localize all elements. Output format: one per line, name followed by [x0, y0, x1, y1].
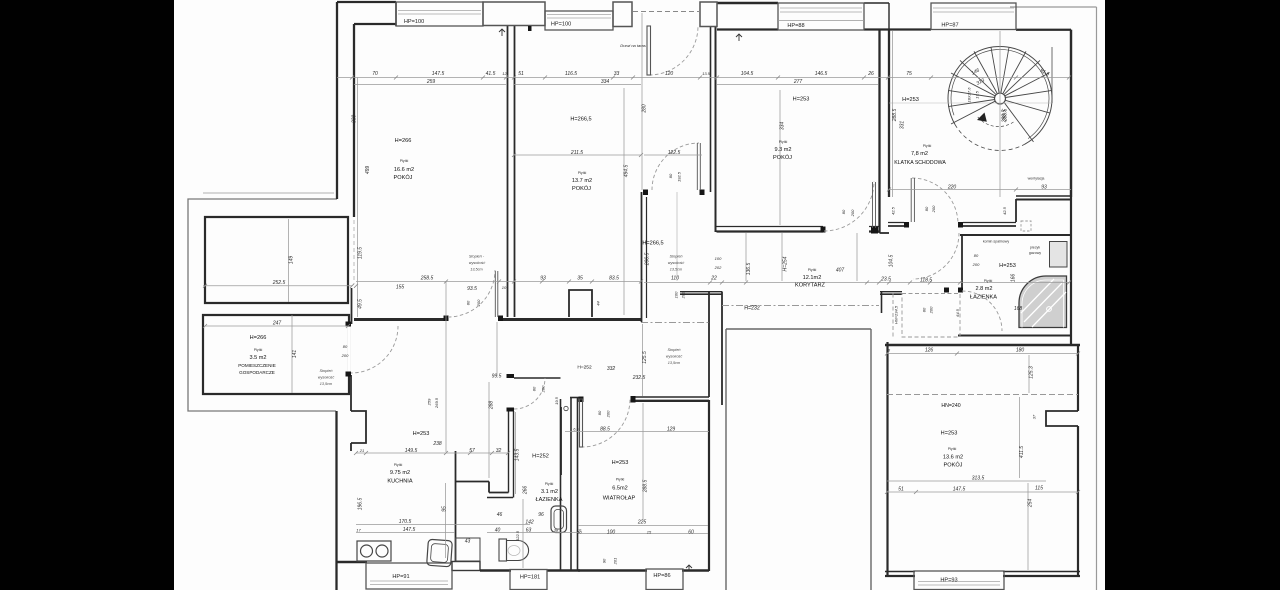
- svg-text:Płytki: Płytki: [779, 140, 788, 144]
- svg-text:Płytki: Płytki: [984, 279, 993, 283]
- svg-text:Płytki: Płytki: [394, 463, 403, 467]
- svg-text:225: 225: [637, 520, 647, 526]
- svg-text:63: 63: [526, 528, 532, 534]
- svg-text:13,5cm: 13,5cm: [320, 382, 332, 386]
- svg-text:6.5m2: 6.5m2: [612, 486, 628, 492]
- svg-text:60: 60: [688, 530, 694, 536]
- svg-text:Stopień: Stopień: [670, 255, 683, 259]
- svg-text:269.5: 269.5: [434, 397, 439, 409]
- svg-text:10: 10: [577, 530, 582, 535]
- svg-text:196.5: 196.5: [358, 498, 364, 511]
- svg-text:80: 80: [841, 209, 846, 214]
- svg-text:HP=87: HP=87: [941, 23, 958, 29]
- svg-text:Płytki: Płytki: [923, 144, 932, 148]
- svg-text:HP=100: HP=100: [551, 22, 571, 28]
- svg-text:HN=234,5: HN=234,5: [894, 305, 899, 324]
- svg-text:147.5: 147.5: [403, 527, 416, 533]
- svg-text:93.5: 93.5: [467, 286, 477, 292]
- svg-text:247: 247: [272, 321, 282, 327]
- svg-text:407: 407: [836, 268, 845, 274]
- svg-text:120: 120: [665, 71, 674, 77]
- svg-text:104.5: 104.5: [741, 71, 754, 77]
- svg-text:313.5: 313.5: [972, 476, 985, 482]
- svg-text:115: 115: [1035, 486, 1043, 492]
- svg-text:26: 26: [867, 71, 874, 77]
- svg-text:KLATKA SCHODOWA: KLATKA SCHODOWA: [894, 160, 946, 166]
- svg-text:HP=91: HP=91: [392, 574, 409, 580]
- svg-text:93: 93: [540, 276, 546, 282]
- svg-text:Płytki: Płytki: [808, 268, 817, 272]
- svg-text:18X17.6: 18X17.6: [967, 87, 972, 103]
- svg-text:wysokość: wysokość: [318, 376, 335, 380]
- svg-text:277: 277: [793, 79, 803, 85]
- svg-text:17: 17: [356, 528, 361, 533]
- svg-text:202: 202: [714, 265, 722, 270]
- svg-text:KORYTARZ: KORYTARZ: [795, 283, 826, 289]
- svg-text:141: 141: [292, 350, 298, 359]
- svg-text:136.5: 136.5: [746, 263, 752, 276]
- svg-text:96: 96: [538, 512, 544, 518]
- svg-text:wysokość: wysokość: [668, 261, 685, 265]
- svg-text:90: 90: [602, 558, 607, 563]
- svg-text:149.5: 149.5: [405, 448, 418, 454]
- svg-text:38: 38: [554, 528, 559, 533]
- svg-text:35: 35: [577, 276, 583, 282]
- svg-text:Drzwi na taras: Drzwi na taras: [620, 43, 646, 48]
- svg-text:wysokość: wysokość: [469, 261, 486, 265]
- svg-text:21: 21: [359, 448, 364, 453]
- svg-text:6.5: 6.5: [573, 427, 579, 432]
- svg-text:110: 110: [671, 276, 679, 282]
- svg-text:254: 254: [1028, 499, 1034, 509]
- svg-text:232.5: 232.5: [632, 375, 646, 381]
- svg-text:43: 43: [465, 539, 471, 545]
- svg-text:POKÓJ: POKÓJ: [773, 154, 792, 161]
- svg-text:95: 95: [442, 506, 448, 512]
- svg-text:Stopień: Stopień: [320, 369, 333, 373]
- svg-text:80: 80: [532, 386, 537, 391]
- svg-text:200: 200: [606, 410, 611, 418]
- svg-text:H=253: H=253: [941, 431, 958, 437]
- svg-text:HP=86: HP=86: [653, 573, 670, 579]
- svg-text:126: 126: [925, 348, 934, 354]
- svg-text:288.5: 288.5: [892, 109, 898, 123]
- svg-text:155: 155: [396, 285, 405, 291]
- svg-text:H=253: H=253: [413, 431, 430, 437]
- svg-text:13,5cm: 13,5cm: [668, 361, 680, 365]
- svg-text:83.5: 83.5: [609, 276, 619, 282]
- svg-text:9.75 m2: 9.75 m2: [390, 470, 410, 476]
- svg-text:200: 200: [931, 205, 936, 213]
- svg-text:122.5: 122.5: [515, 530, 520, 541]
- svg-text:9.3 m2: 9.3 m2: [774, 147, 791, 153]
- svg-text:334: 334: [601, 79, 610, 85]
- svg-text:49.5: 49.5: [358, 299, 364, 309]
- svg-text:411.5: 411.5: [1019, 446, 1025, 458]
- svg-text:17.5: 17.5: [975, 90, 980, 99]
- svg-text:Płytki: Płytki: [400, 159, 409, 163]
- svg-text:70: 70: [372, 71, 378, 77]
- svg-text:211.5: 211.5: [570, 150, 583, 156]
- svg-text:GOSPODARCZE: GOSPODARCZE: [239, 370, 275, 375]
- svg-text:13.7 m2: 13.7 m2: [572, 178, 592, 184]
- svg-text:HP=181: HP=181: [520, 575, 540, 581]
- svg-text:WIATROŁAP: WIATROŁAP: [603, 496, 636, 502]
- svg-text:200: 200: [972, 262, 980, 267]
- svg-text:88.5: 88.5: [600, 427, 610, 433]
- svg-text:146.5: 146.5: [815, 71, 828, 77]
- svg-text:494.5: 494.5: [624, 165, 630, 178]
- svg-text:118.5: 118.5: [920, 278, 932, 284]
- svg-text:Płytki: Płytki: [254, 348, 263, 352]
- svg-text:104.5: 104.5: [889, 255, 895, 268]
- svg-text:330: 330: [352, 115, 358, 124]
- svg-text:ŁAZIENKA: ŁAZIENKA: [535, 497, 562, 503]
- svg-text:80: 80: [974, 253, 979, 258]
- svg-text:129: 129: [667, 427, 676, 433]
- svg-text:13.6 m2: 13.6 m2: [943, 455, 963, 461]
- svg-text:116.5: 116.5: [565, 71, 577, 77]
- svg-text:206.5: 206.5: [645, 253, 651, 267]
- svg-text:komin spalinowy: komin spalinowy: [983, 240, 1010, 244]
- svg-text:H=254: H=254: [783, 256, 789, 271]
- svg-text:12.1m2: 12.1m2: [803, 275, 822, 281]
- svg-text:143.5: 143.5: [515, 449, 521, 462]
- svg-text:51: 51: [518, 71, 524, 77]
- svg-text:147.5: 147.5: [953, 487, 966, 493]
- svg-text:200: 200: [541, 385, 546, 393]
- svg-text:201: 201: [613, 558, 618, 566]
- svg-text:125.5: 125.5: [642, 351, 648, 364]
- svg-text:33: 33: [614, 71, 620, 77]
- svg-text:200: 200: [476, 299, 481, 307]
- svg-text:170.5: 170.5: [399, 519, 412, 525]
- svg-text:100: 100: [674, 291, 679, 298]
- svg-text:13,5cm: 13,5cm: [470, 268, 482, 272]
- svg-text:wentylacja: wentylacja: [1028, 177, 1045, 181]
- svg-text:H=253: H=253: [902, 97, 919, 103]
- svg-text:41.5: 41.5: [486, 71, 496, 77]
- svg-text:KUCHNIA: KUCHNIA: [387, 479, 412, 485]
- svg-text:332: 332: [607, 366, 616, 372]
- svg-text:75: 75: [906, 71, 912, 77]
- svg-text:80: 80: [597, 410, 602, 415]
- svg-text:119.5: 119.5: [358, 247, 364, 259]
- svg-text:200: 200: [850, 209, 855, 217]
- svg-text:334: 334: [780, 122, 786, 131]
- svg-text:Płytki: Płytki: [948, 447, 957, 451]
- svg-text:200: 200: [341, 353, 349, 358]
- svg-text:2.8 m2: 2.8 m2: [975, 286, 992, 292]
- svg-text:80: 80: [668, 173, 673, 178]
- svg-text:ŁAZIENKA: ŁAZIENKA: [970, 295, 997, 301]
- svg-text:HP=100: HP=100: [404, 19, 424, 25]
- svg-text:80: 80: [922, 307, 927, 312]
- svg-text:H=266: H=266: [395, 138, 412, 144]
- svg-text:H=266,5: H=266,5: [642, 241, 663, 247]
- svg-text:46: 46: [497, 512, 503, 518]
- svg-text:44: 44: [596, 301, 601, 306]
- svg-text:37: 37: [1032, 414, 1037, 419]
- svg-text:H=253: H=253: [612, 460, 629, 466]
- svg-text:13.5: 13.5: [702, 71, 711, 76]
- svg-text:166: 166: [1011, 274, 1017, 283]
- svg-text:H=253: H=253: [793, 97, 810, 103]
- svg-text:93: 93: [1041, 185, 1047, 191]
- svg-text:149: 149: [289, 256, 295, 265]
- svg-text:POKÓJ: POKÓJ: [572, 185, 591, 192]
- svg-text:HN=240: HN=240: [941, 403, 960, 409]
- svg-text:Płytki: Płytki: [616, 478, 625, 482]
- svg-text:15: 15: [647, 530, 652, 535]
- svg-text:100: 100: [715, 256, 722, 261]
- svg-text:13,5cm: 13,5cm: [670, 268, 682, 272]
- svg-text:Stopień: Stopień: [668, 348, 681, 352]
- svg-text:99.5: 99.5: [492, 374, 502, 380]
- svg-text:252.5: 252.5: [272, 280, 286, 286]
- svg-text:202: 202: [681, 291, 686, 299]
- svg-text:125.3: 125.3: [1029, 366, 1035, 379]
- svg-text:180: 180: [1016, 348, 1025, 354]
- svg-text:258.5: 258.5: [420, 276, 434, 282]
- svg-text:Płytki: Płytki: [578, 171, 587, 175]
- svg-text:40: 40: [495, 528, 501, 534]
- svg-text:10: 10: [502, 285, 507, 290]
- svg-text:gazowy: gazowy: [1029, 251, 1041, 255]
- svg-text:H=232: H=232: [744, 306, 760, 312]
- svg-text:42.5: 42.5: [1002, 206, 1007, 215]
- svg-text:331: 331: [900, 121, 906, 130]
- svg-text:80: 80: [466, 300, 471, 305]
- svg-text:HP=93: HP=93: [940, 578, 957, 584]
- svg-text:H=266: H=266: [250, 335, 267, 341]
- svg-text:16.6 m2: 16.6 m2: [394, 167, 414, 173]
- svg-text:80: 80: [924, 206, 929, 211]
- svg-text:499: 499: [365, 166, 371, 175]
- svg-text:23.5: 23.5: [880, 277, 891, 283]
- svg-text:piecyk: piecyk: [1030, 246, 1040, 250]
- svg-text:22: 22: [710, 276, 717, 282]
- svg-text:200: 200: [929, 306, 934, 314]
- svg-text:238: 238: [432, 441, 442, 447]
- svg-text:3.1 m2: 3.1 m2: [541, 489, 558, 495]
- svg-text:12: 12: [502, 71, 507, 76]
- svg-text:H=252: H=252: [577, 365, 592, 371]
- svg-text:259: 259: [427, 398, 432, 406]
- svg-text:57: 57: [469, 448, 475, 454]
- svg-text:142: 142: [525, 520, 534, 526]
- svg-text:32: 32: [496, 448, 502, 454]
- svg-text:259: 259: [426, 79, 436, 85]
- svg-text:288.5: 288.5: [643, 480, 649, 494]
- svg-text:122.5: 122.5: [668, 150, 681, 156]
- svg-text:280: 280: [642, 104, 648, 114]
- svg-text:Stopień -: Stopień -: [469, 255, 485, 259]
- svg-text:80: 80: [343, 344, 348, 349]
- svg-text:100: 100: [607, 530, 616, 536]
- svg-text:147.5: 147.5: [432, 71, 445, 77]
- svg-text:H=266,5: H=266,5: [570, 117, 591, 123]
- svg-text:266: 266: [523, 486, 529, 496]
- svg-text:220: 220: [947, 185, 957, 191]
- svg-text:3.5 m2: 3.5 m2: [249, 355, 266, 361]
- svg-text:192.5: 192.5: [677, 171, 682, 182]
- svg-text:288: 288: [489, 401, 495, 411]
- svg-text:168: 168: [1014, 306, 1023, 312]
- svg-text:POKÓJ: POKÓJ: [394, 174, 413, 181]
- svg-text:Płytki: Płytki: [545, 482, 554, 486]
- svg-text:7,8 m2: 7,8 m2: [911, 151, 928, 157]
- svg-text:51: 51: [898, 487, 904, 493]
- svg-text:POMIESZCZENIE: POMIESZCZENIE: [238, 363, 276, 368]
- svg-text:42.5: 42.5: [891, 206, 896, 215]
- svg-text:19.5: 19.5: [554, 396, 559, 405]
- svg-text:H=253: H=253: [999, 263, 1016, 269]
- svg-text:POKÓJ: POKÓJ: [944, 462, 963, 469]
- svg-text:H=252: H=252: [532, 454, 549, 460]
- svg-text:HP=88: HP=88: [787, 23, 804, 29]
- svg-text:288.5: 288.5: [1002, 110, 1008, 124]
- svg-text:wysokość: wysokość: [666, 355, 683, 359]
- svg-text:64.5: 64.5: [955, 308, 960, 317]
